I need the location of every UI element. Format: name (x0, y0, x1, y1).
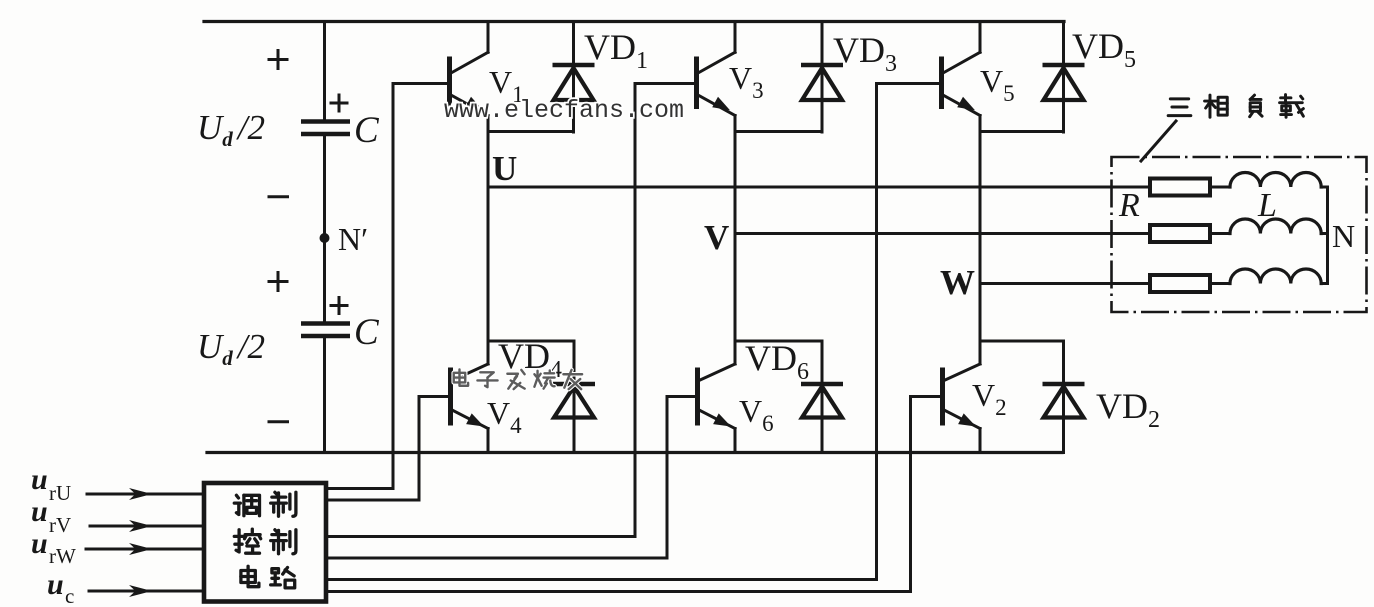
svg-text:VD6: VD6 (745, 338, 809, 385)
svg-text:VD3: VD3 (833, 30, 897, 77)
wire input u_rW (86, 548, 204, 551)
wire input u_rV (90, 525, 204, 528)
svg-text:Ud/2: Ud/2 (197, 327, 265, 370)
label + (top rail polarity) (269, 51, 287, 69)
wire L to N (phase V) (1321, 232, 1327, 235)
svg-text:N: N (1332, 218, 1355, 254)
wire V5 base lead (877, 82, 942, 85)
svg-text:rU: rU (49, 481, 71, 505)
svg-text:u: u (47, 568, 64, 601)
wire bottom DC bus (207, 451, 1062, 454)
svg-text:rW: rW (49, 544, 76, 568)
label − (bottom polarity) (269, 420, 288, 423)
wire V-leg middle (V3 emitter to V6 collector) (734, 116, 737, 365)
wire neutral bus N (1326, 187, 1329, 284)
transistor V2 (943, 364, 981, 429)
wire input u_c (89, 590, 204, 593)
svg-text:C: C (354, 110, 380, 151)
diode VD5 (1043, 22, 1085, 133)
diode VD6 (801, 341, 843, 453)
svg-text:V2: V2 (972, 377, 1007, 420)
wire gate drive to V4 (326, 397, 419, 501)
wire gate drive to V1 (326, 84, 393, 489)
arrowhead u_c (129, 585, 152, 597)
svg-text:V5: V5 (980, 63, 1015, 106)
wire R to L (phase V) (1210, 232, 1230, 235)
wire V5 emitter to VD5 anode (980, 130, 1064, 133)
svg-text:u: u (31, 495, 48, 528)
diode VD1 (553, 22, 595, 133)
svg-text:VD5: VD5 (1072, 26, 1136, 73)
wire L to N (phase U) (1321, 186, 1327, 189)
inductor L (phase U) (1230, 172, 1321, 187)
wire W-leg top (bus to V5 collector) (979, 22, 982, 53)
wire capacitor C2 to bottom bus (323, 338, 326, 453)
resistor R (phase W) (1150, 275, 1210, 292)
svg-text:W: W (940, 263, 975, 302)
wire V4 emitter to bottom bus (487, 429, 490, 453)
wire V2 emitter to bottom bus (979, 429, 982, 453)
wire capacitor C1 to capacitor C2 (323, 136, 326, 322)
svg-text:u: u (31, 527, 48, 560)
wire V3 emitter to VD3 anode (735, 130, 822, 133)
inductor L (phase W) (1230, 269, 1321, 284)
capacitor C1 (301, 122, 350, 135)
wire gate drive to V5 (326, 84, 877, 580)
label + (lower half polarity) (269, 273, 287, 291)
wire gate drive to V6 (326, 397, 667, 559)
svg-text:U: U (492, 149, 517, 188)
wire V node to VD6 cathode (735, 340, 822, 343)
watermark 电子发烧友 (454, 369, 582, 389)
resistor R (phase V) (1150, 225, 1210, 242)
wire top DC bus (204, 20, 1064, 23)
node N' (320, 233, 330, 243)
wire phase W line (980, 282, 1150, 285)
transistor V3 (697, 52, 736, 115)
wire gate drive to V2 (326, 397, 911, 592)
wire gate drive to V3 (326, 84, 635, 537)
wire U-leg top (bus to V1 collector) (487, 22, 490, 53)
control block 调制控制电路 (204, 483, 326, 602)
wire V4 base lead (419, 395, 451, 398)
transistor V4 (451, 364, 489, 429)
load pointer line (1141, 121, 1176, 161)
label + (capacitor C2 polarity) (331, 298, 347, 314)
svg-text:V: V (704, 218, 729, 257)
transistor V6 (698, 364, 736, 429)
wire R to L (phase W) (1210, 282, 1230, 285)
capacitor C2 (301, 324, 350, 337)
wire V2 base lead (911, 395, 944, 398)
arrowhead u_rV (129, 520, 152, 532)
wire V-leg top (bus to V3 collector) (734, 22, 737, 53)
svg-text:V6: V6 (739, 393, 774, 436)
label + (capacitor C1 polarity) (331, 95, 347, 111)
wire R to L (phase U) (1210, 186, 1230, 189)
label 调制控制电路 (control block text) (234, 492, 296, 588)
svg-text:rV: rV (49, 513, 71, 537)
label 三相负载 (three-phase load title) (1168, 95, 1303, 118)
wire U-leg middle (V1 emitter to V4 collector) (487, 116, 490, 365)
svg-text:N′: N′ (338, 221, 368, 257)
svg-text:www.elecfans.com: www.elecfans.com (444, 96, 684, 125)
resistor R (phase U) (1150, 179, 1210, 196)
inductor L (phase V) (1230, 219, 1321, 234)
arrowhead u_rU (129, 488, 152, 500)
svg-text:VD1: VD1 (584, 27, 648, 74)
svg-text:V4: V4 (487, 395, 522, 438)
wire V6 emitter to bottom bus (734, 429, 737, 453)
diode VD4 (553, 341, 595, 453)
arrowhead u_rW (129, 543, 152, 555)
wire V3 base lead (635, 82, 697, 85)
diode VD3 (801, 22, 843, 133)
label − (mid polarity upper) (269, 195, 288, 198)
wire V6 base lead (667, 395, 698, 398)
svg-text:Ud/2: Ud/2 (197, 108, 265, 151)
svg-text:u: u (31, 463, 48, 496)
wire phase U line (488, 186, 1150, 189)
svg-text:C: C (354, 312, 380, 353)
transistor V1 (450, 52, 489, 115)
wire input u_rU (87, 493, 204, 496)
wire W node to VD2 cathode (980, 340, 1064, 343)
transistor V5 (942, 52, 981, 115)
svg-text:c: c (65, 584, 74, 607)
wire L to N (phase W) (1321, 282, 1327, 285)
wire V1 emitter to VD1 anode (488, 130, 574, 133)
wire phase V line (735, 232, 1150, 235)
three-phase load box (dash-dot) (1112, 157, 1367, 312)
svg-text:V3: V3 (729, 60, 764, 103)
diode VD2 (1043, 341, 1085, 453)
svg-text:VD2: VD2 (1096, 386, 1160, 433)
svg-text:R: R (1118, 187, 1140, 224)
wire U node to VD4 cathode (488, 340, 574, 343)
wire top bus to capacitor C1 (323, 22, 326, 120)
wire V1 base lead (393, 82, 450, 85)
wire W-leg middle (V5 emitter to V2 collector) (979, 116, 982, 365)
